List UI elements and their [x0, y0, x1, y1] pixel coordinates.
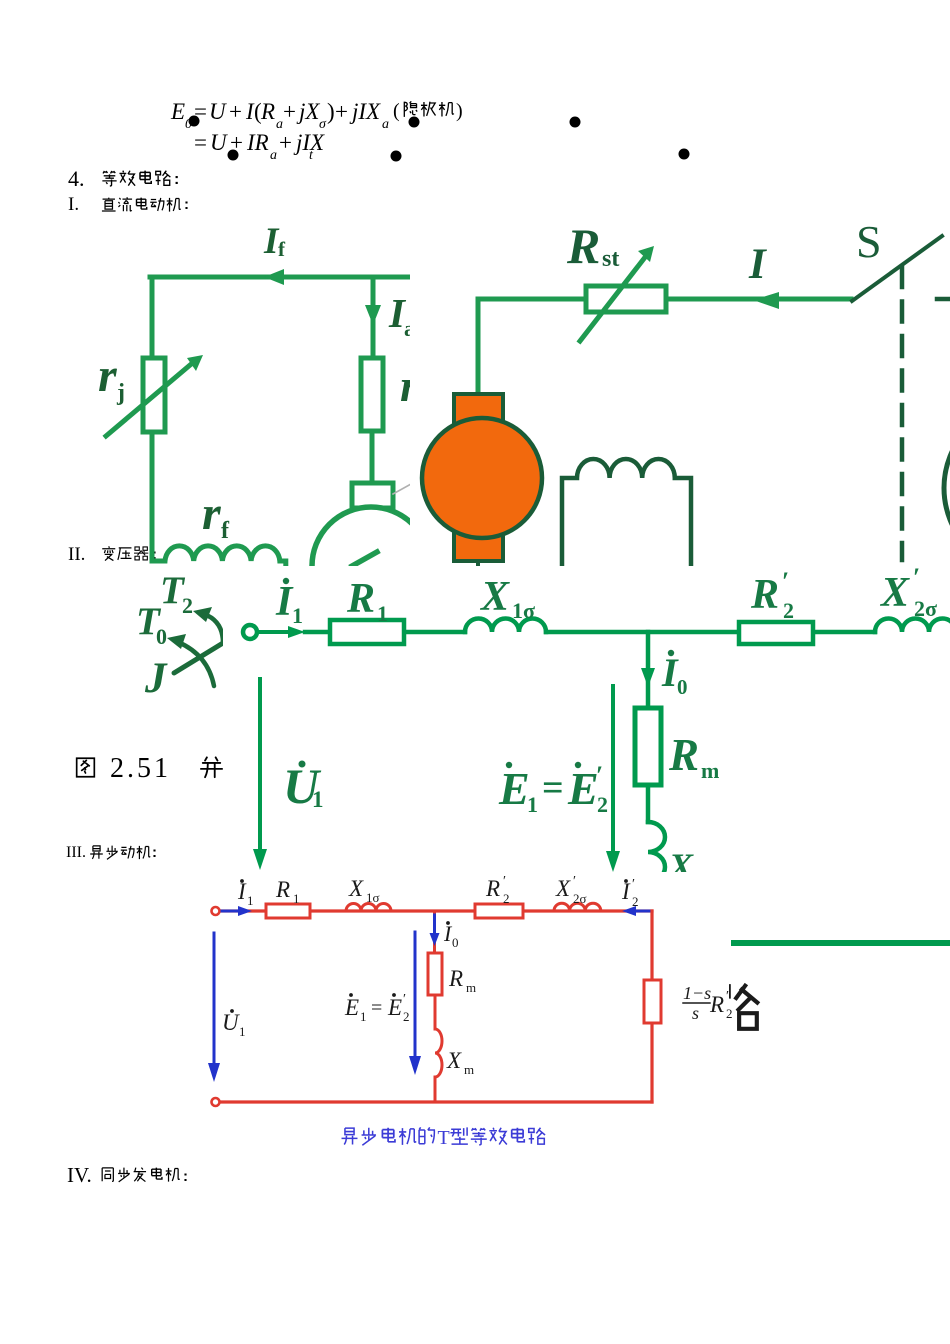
switch S blade: [852, 236, 942, 301]
inductor X1s: [465, 619, 546, 633]
wire: [646, 785, 651, 822]
leader line (gray): [393, 484, 411, 494]
current arrow I1: [258, 630, 292, 634]
wire: [305, 630, 875, 635]
brush square: [352, 483, 393, 508]
current arrow I0: [641, 668, 655, 687]
resistor R2p: [739, 622, 813, 644]
inductor X2sp: [875, 619, 950, 633]
inductor Xm (vertical): [648, 822, 665, 882]
top wire: [221, 909, 652, 912]
caption: T-type equivalent circuit (blue): [342, 1128, 358, 1144]
top-left terminal: [212, 907, 220, 915]
J shaft line: [174, 643, 223, 673]
resistor R1: [266, 904, 310, 918]
bottom wire: [221, 1100, 652, 1103]
white background of figure: [150, 872, 729, 1160]
wire: armature branch: [372, 277, 373, 483]
resistor R2p: [475, 904, 523, 918]
wire: [434, 995, 437, 1102]
wire: right branch: [650, 911, 653, 1102]
white background of figure: [410, 220, 950, 566]
dash at right edge: [937, 297, 950, 302]
voltage arrow E (blue): [414, 932, 417, 1061]
resistor Rm: [428, 953, 442, 995]
resistor r (armature): [361, 358, 383, 431]
resistor Rst (starting rheostat): [586, 286, 666, 312]
motor circle M: [312, 507, 430, 625]
stray scan dots: [189, 116, 200, 127]
current arrow Ia: [365, 305, 381, 325]
caption: fig 2.51: [77, 758, 95, 776]
voltage arrow U1: [258, 679, 262, 855]
motor armature (orange circle): [422, 418, 542, 538]
inductor Xm (vertical): [435, 1029, 442, 1077]
brush top (orange): [454, 394, 503, 424]
wire: top horizontal: [478, 297, 851, 302]
resistor R1: [330, 620, 404, 644]
partial arc at page edge: [944, 402, 950, 574]
current arrow I2p (blue, pointing left): [634, 910, 650, 913]
current arrow If: [264, 269, 284, 285]
brush bottom (orange): [454, 528, 503, 561]
wire: shunt branch down: [646, 632, 651, 708]
glyph defs for CJK characters (stroke approximations): [0, 0, 5, 5]
svg-text:T: T: [438, 1127, 450, 1149]
voltage arrow U1 (blue): [213, 933, 216, 1068]
curved arrow to T0: [178, 642, 214, 686]
current arrow I: [753, 292, 779, 309]
inductor X1s: [346, 904, 391, 911]
white background of figure: [223, 566, 950, 955]
bottom-left terminal: [212, 1098, 220, 1106]
inductor rf (field winding): [152, 546, 286, 566]
inductor X2sp: [554, 903, 601, 911]
wire: left vertical to motor: [476, 299, 481, 396]
current arrow I1 (blue): [222, 910, 240, 913]
wire: field circuit top: [150, 275, 412, 280]
resistor rj (rheostat): [143, 358, 165, 432]
curved arrow to T2: [204, 614, 223, 643]
brush mark inside motor: [352, 552, 377, 566]
resistor Rm: [635, 708, 661, 785]
terminal node (input): [243, 625, 257, 639]
dashed line: [900, 267, 905, 560]
wire: shunt branch: [433, 911, 436, 953]
resistor (1-s)/s R2p: [644, 980, 661, 1023]
wire stub below brush: [476, 561, 480, 566]
voltage arrow E: [611, 686, 615, 857]
current arrow I0 (blue): [433, 915, 436, 936]
wire: left vertical: [150, 277, 155, 561]
field winding coil: [562, 459, 691, 566]
